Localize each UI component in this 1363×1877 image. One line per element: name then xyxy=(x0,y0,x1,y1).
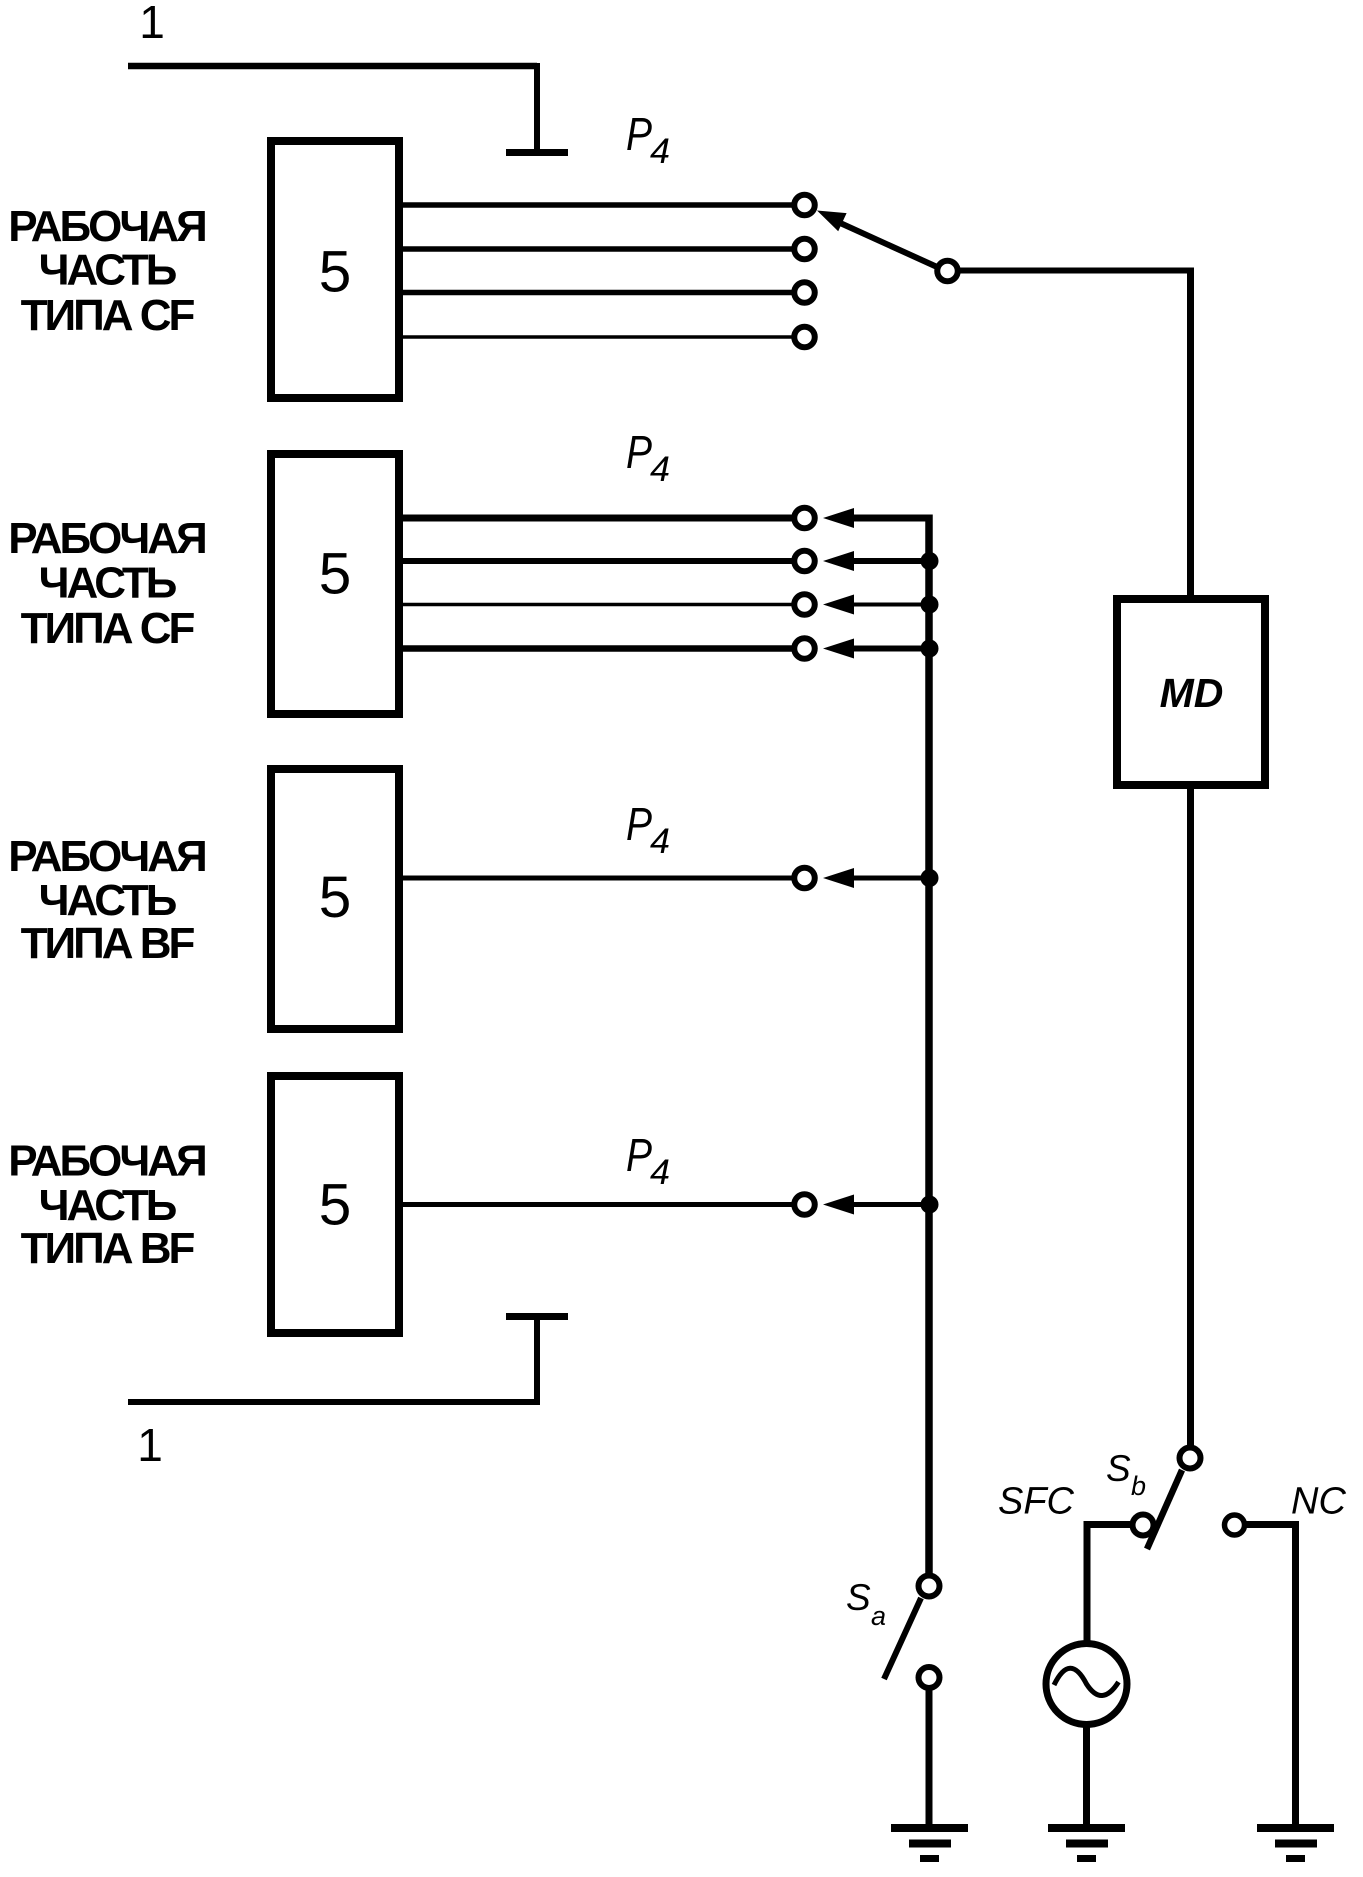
wire node1 top vertical xyxy=(534,63,540,150)
SFC contact circle xyxy=(1133,1515,1154,1536)
svg-text:SFC: SFC xyxy=(998,1481,1075,1523)
arrow into group2 pin4 xyxy=(823,639,854,659)
svg-text:P: P xyxy=(626,1129,652,1181)
vertical bus P4 xyxy=(925,515,933,1575)
terminal circle group2 pin2 xyxy=(794,551,815,572)
wire group2 line4 xyxy=(401,645,793,652)
junction dot bus line3 xyxy=(921,596,939,614)
label РАБОЧАЯ ЧАСТЬ ТИПА CF group 2 xyxy=(8,514,205,653)
svg-text:a: a xyxy=(871,1601,886,1631)
svg-text:b: b xyxy=(1131,1471,1146,1501)
svg-text:S: S xyxy=(1106,1448,1131,1489)
arrow into group2 pin1 xyxy=(823,508,854,528)
terminal bar top (enclosure connection) xyxy=(506,149,568,156)
svg-text:MD: MD xyxy=(1160,670,1224,716)
label РАБОЧАЯ ЧАСТЬ ТИПА BF group 3 xyxy=(8,832,205,968)
switch Sa lower circle xyxy=(919,1667,940,1688)
svg-text:P: P xyxy=(626,798,652,850)
terminal circle group2 pin3 xyxy=(794,594,815,615)
svg-text:5: 5 xyxy=(319,240,352,305)
measuring device box MD xyxy=(1117,599,1265,785)
switch Sb fixed circle xyxy=(1180,1448,1201,1469)
wire group3 line xyxy=(401,876,793,881)
wire SFC vertical to source xyxy=(1084,1521,1091,1644)
wire node1 top horizontal xyxy=(128,63,537,70)
ground symbol under Sa xyxy=(891,1824,968,1862)
svg-text:5: 5 xyxy=(319,1173,352,1238)
ground symbol NC xyxy=(1257,1824,1334,1862)
wire group1 line4 xyxy=(401,335,793,339)
svg-text:ТИПА BF: ТИПА BF xyxy=(21,919,195,968)
label Sa xyxy=(846,1577,886,1631)
svg-text:4: 4 xyxy=(650,1153,670,1192)
svg-text:NC: NC xyxy=(1291,1481,1346,1523)
switch wiper blade P4 selector xyxy=(838,222,936,267)
svg-text:ЧАСТЬ: ЧАСТЬ xyxy=(39,1181,177,1230)
wire bus to arrow group3 xyxy=(850,876,929,881)
svg-text:РАБОЧАЯ: РАБОЧАЯ xyxy=(8,1137,205,1186)
svg-text:РАБОЧАЯ: РАБОЧАЯ xyxy=(8,202,205,251)
terminal circle group1 pin4 xyxy=(794,327,815,348)
wire bus to arrow group2 line1 corner xyxy=(850,515,929,522)
wire group2 line3 xyxy=(401,603,793,607)
svg-text:ТИПА BF: ТИПА BF xyxy=(21,1224,195,1273)
wire SFC horizontal xyxy=(1084,1521,1131,1528)
junction dot bus line2 xyxy=(921,552,939,570)
junction dot bus line4 xyxy=(921,640,939,658)
wire corner down to MD xyxy=(1187,268,1194,600)
svg-text:ЧАСТЬ: ЧАСТЬ xyxy=(39,559,177,608)
wire bus to arrow group2 line4 xyxy=(850,646,929,652)
svg-text:4: 4 xyxy=(650,132,670,171)
svg-text:5: 5 xyxy=(319,542,352,607)
terminal circle group1 pin2 xyxy=(794,239,815,260)
switch pivot circle xyxy=(937,261,958,282)
ground symbol under source xyxy=(1048,1824,1125,1862)
wire group1 line3 xyxy=(401,290,793,296)
svg-text:P: P xyxy=(626,426,652,478)
svg-text:S: S xyxy=(846,1577,871,1618)
wire group1 line1 xyxy=(401,202,793,208)
wire NC horizontal xyxy=(1245,1521,1299,1528)
wire node1 bottom horizontal xyxy=(128,1399,540,1405)
svg-text:ЧАСТЬ: ЧАСТЬ xyxy=(39,246,177,295)
arrow into group2 pin2 xyxy=(823,551,854,571)
terminal circle group4 xyxy=(794,1194,815,1215)
svg-text:4: 4 xyxy=(650,822,670,861)
arrow into group4 xyxy=(823,1195,854,1215)
wire group2 line2 xyxy=(401,558,793,564)
svg-text:РАБОЧАЯ: РАБОЧАЯ xyxy=(8,514,205,563)
label P4 #4 xyxy=(626,1129,670,1192)
svg-text:ЧАСТЬ: ЧАСТЬ xyxy=(39,876,177,925)
wire group1 line2 xyxy=(401,246,793,252)
terminal circle group1 pin3 xyxy=(794,282,815,303)
label P4 #3 xyxy=(626,798,670,861)
junction dot bus group4 xyxy=(921,1196,939,1214)
terminal circle group1 pin1 xyxy=(794,195,815,216)
label Sb xyxy=(1106,1448,1146,1501)
wire NC vertical to ground xyxy=(1292,1521,1299,1827)
NC contact circle xyxy=(1225,1515,1245,1535)
applied part box 5 (BF #2) xyxy=(271,1076,399,1333)
label РАБОЧАЯ ЧАСТЬ ТИПА BF group 4 xyxy=(8,1137,205,1274)
label РАБОЧАЯ ЧАСТЬ ТИПА CF group 1 xyxy=(8,202,205,340)
wire Sa to ground xyxy=(926,1689,933,1827)
svg-text:1: 1 xyxy=(137,1419,163,1471)
switch Sa blade xyxy=(884,1598,921,1679)
applied part box 5 (BF #1) xyxy=(271,769,399,1029)
svg-text:1: 1 xyxy=(139,0,165,48)
switch Sb blade xyxy=(1147,1470,1182,1549)
arrow into group3 xyxy=(823,868,854,888)
svg-text:P: P xyxy=(626,108,652,160)
wire bus to arrow group2 line3 xyxy=(850,603,929,607)
label P4 #1 xyxy=(626,108,670,171)
wire group4 line xyxy=(401,1202,793,1207)
label P4 #2 xyxy=(626,426,670,489)
wire bus to arrow group4 xyxy=(850,1202,929,1207)
wire node1 bottom vertical xyxy=(534,1319,540,1402)
svg-text:ТИПА CF: ТИПА CF xyxy=(21,291,195,340)
terminal bar bottom (enclosure connection) xyxy=(506,1313,568,1320)
AC source circle xyxy=(1046,1644,1127,1725)
wire bus to arrow group2 line2 xyxy=(850,558,929,564)
wire pivot to MD corner horizontal xyxy=(958,268,1194,274)
wire source to ground xyxy=(1083,1724,1090,1827)
svg-text:4: 4 xyxy=(650,450,670,489)
wire MD to Sb xyxy=(1187,785,1194,1447)
applied part box 5 (CF #2) xyxy=(271,454,399,714)
applied part box 5 (CF #1) xyxy=(271,141,399,398)
arrow into group2 pin3 xyxy=(823,595,854,615)
wire group2 line1 xyxy=(401,515,793,522)
svg-text:РАБОЧАЯ: РАБОЧАЯ xyxy=(8,832,205,881)
svg-text:ТИПА CF: ТИПА CF xyxy=(21,604,195,653)
svg-text:5: 5 xyxy=(319,865,352,930)
AC source sine wave xyxy=(1054,1668,1119,1695)
terminal circle group3 xyxy=(794,868,815,889)
switch Sa upper circle xyxy=(919,1576,940,1597)
terminal circle group2 pin4 xyxy=(794,638,815,659)
junction dot bus group3 xyxy=(921,869,939,887)
switch wiper arrowhead xyxy=(817,211,847,232)
terminal circle group2 pin1 xyxy=(794,508,815,529)
